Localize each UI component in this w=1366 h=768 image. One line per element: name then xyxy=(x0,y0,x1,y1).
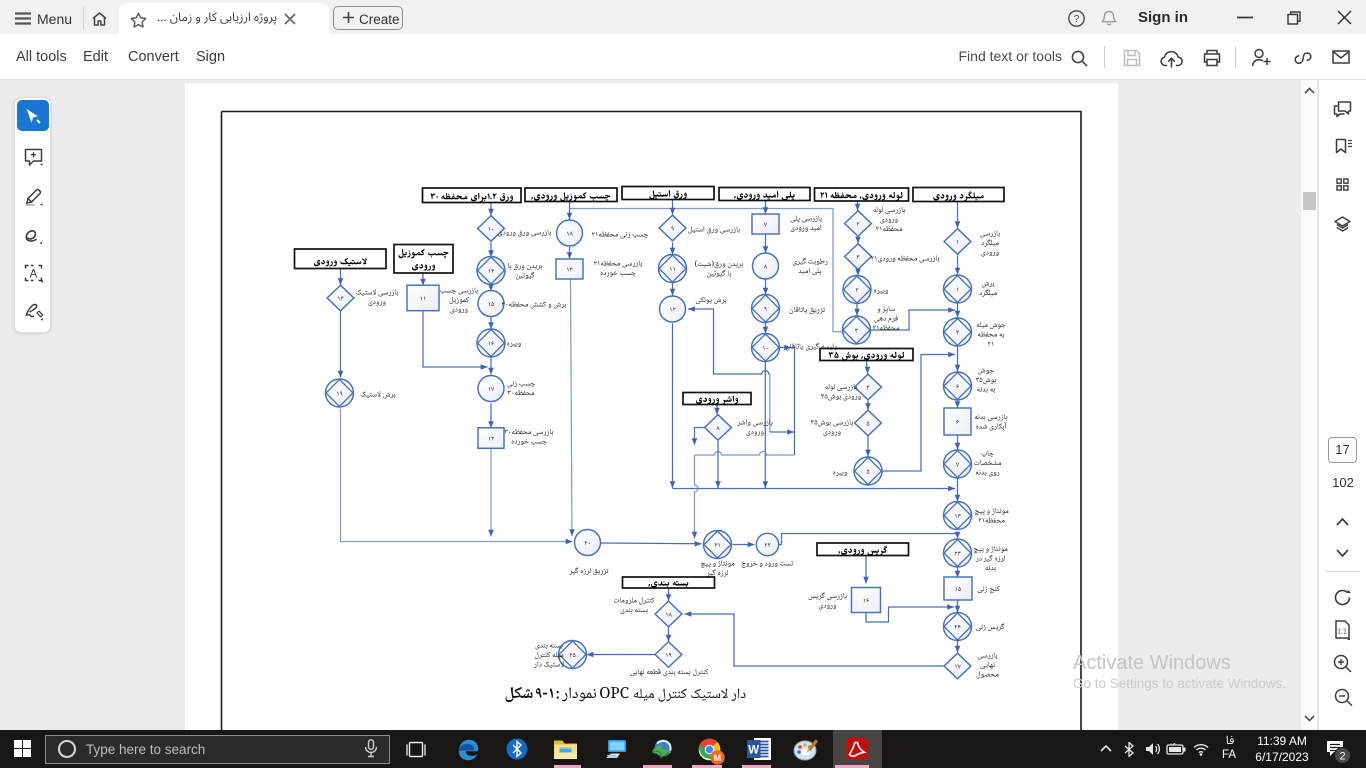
start button xyxy=(14,740,31,757)
combined circle-diamond H4 (۱۶) xyxy=(477,329,505,357)
zoom out icon xyxy=(1334,688,1353,706)
wire wH2 xyxy=(488,284,494,291)
label C1 xyxy=(821,384,861,401)
operation-circle H3 (۱۵) xyxy=(478,291,504,317)
wire wA6 xyxy=(955,479,961,502)
wire wG0 xyxy=(567,200,573,220)
combined circle-diamond H2 (۱۴) xyxy=(477,257,505,285)
wire wL1b xyxy=(866,604,954,622)
wire wD8 xyxy=(770,429,794,435)
label B1 xyxy=(873,207,905,231)
label A8 xyxy=(974,546,1008,572)
wire wI1 xyxy=(423,311,488,370)
wire wJ2 xyxy=(341,409,573,545)
label H5 xyxy=(507,381,535,395)
label A1 xyxy=(980,230,999,256)
inspection-diamond H1 (۱۰) xyxy=(478,216,505,242)
create text xyxy=(359,12,400,27)
label D2 xyxy=(793,258,828,275)
label A3 xyxy=(977,322,1006,346)
wire wE2 xyxy=(692,428,708,446)
material header box L0 xyxy=(817,543,909,556)
label I1 xyxy=(440,287,477,313)
label A4 xyxy=(976,369,996,394)
task view icon xyxy=(406,741,426,758)
wire wD2 xyxy=(763,279,769,295)
inspection-diamond C1 (۴) xyxy=(855,374,882,400)
tray language FA xyxy=(1222,749,1236,761)
material header box B0 xyxy=(815,188,909,201)
wire wD6 xyxy=(780,345,795,455)
select tool (active, blue) xyxy=(17,100,49,131)
wire wC2 xyxy=(865,436,871,457)
tray bluetooth xyxy=(1124,742,1134,757)
label K1 xyxy=(569,567,608,575)
Menu text xyxy=(37,11,72,27)
label G2 xyxy=(594,260,642,276)
wire wJ1 xyxy=(338,312,344,378)
label H6 xyxy=(505,429,553,445)
label B3 xyxy=(874,289,888,294)
wire wA4 xyxy=(955,401,961,409)
label A2 xyxy=(979,282,996,297)
wire wE0 xyxy=(714,405,720,415)
wire wB0 xyxy=(855,201,861,211)
home icon xyxy=(92,12,107,26)
label F3 xyxy=(696,297,727,304)
operation-circle K1 (۲۰) xyxy=(575,530,601,556)
combined circle-diamond A3 (۴) xyxy=(944,318,972,346)
combined circle-diamond D3 (۹) xyxy=(752,295,780,323)
svg-text:M: M xyxy=(714,753,722,763)
label K2 xyxy=(701,560,735,576)
Edit xyxy=(83,49,108,65)
wire wL2 xyxy=(695,452,795,456)
toolbar xyxy=(0,34,1366,80)
mail icon xyxy=(1332,50,1350,64)
wire wL4 xyxy=(692,455,698,539)
zoom in icon xyxy=(1333,654,1352,673)
inspection-diamond A1 (۱) xyxy=(944,229,971,255)
divider xyxy=(1326,571,1360,572)
label M2 xyxy=(630,669,708,676)
activate windows watermark xyxy=(1073,652,1231,675)
label D4 xyxy=(786,343,837,351)
bluetooth taskbar icon xyxy=(506,738,528,760)
file explorer icon xyxy=(553,739,578,760)
page number box xyxy=(1328,437,1357,463)
label B2 xyxy=(871,255,939,262)
sign tool xyxy=(24,302,44,321)
label A9 xyxy=(978,586,1000,593)
comment tool xyxy=(24,148,43,166)
minimize xyxy=(1237,16,1253,19)
inspection-square G2 (۱۳) xyxy=(556,259,583,279)
wire wF1a xyxy=(670,200,676,215)
tray speaker xyxy=(1145,742,1162,756)
tab title (persian) xyxy=(157,8,292,26)
svg-text:A: A xyxy=(30,269,38,281)
notification icon xyxy=(1326,740,1344,757)
inspection-square A9 (۱۵) xyxy=(944,577,972,600)
wire wA2 xyxy=(955,303,961,317)
wire wK1r xyxy=(601,541,702,547)
wire wE1 xyxy=(715,441,721,488)
wire wD4 xyxy=(763,362,769,488)
tray time xyxy=(1252,734,1312,748)
wire wB4 xyxy=(871,307,955,330)
wire wK2r xyxy=(733,542,755,548)
wire wJ0 xyxy=(338,269,344,285)
search icon xyxy=(1071,50,1088,67)
wire wLT xyxy=(570,209,843,332)
inspection-square A5 (۶) xyxy=(944,408,971,435)
acrobat active tile xyxy=(833,730,882,768)
wire wG2 xyxy=(569,279,575,536)
tab star icon xyxy=(130,12,147,29)
wire wA3 xyxy=(955,347,961,372)
label M1 xyxy=(614,597,654,614)
Sign xyxy=(196,49,225,65)
All tools xyxy=(16,49,67,65)
Find text or tools xyxy=(932,48,1062,64)
label E1 xyxy=(737,419,772,436)
wire wC3 xyxy=(882,352,956,471)
label C2 xyxy=(811,419,853,436)
wire wK3r xyxy=(779,532,961,545)
label J1 xyxy=(356,289,398,306)
combined circle-diamond A7 (۱۳) xyxy=(944,502,972,530)
combined circle-diamond K2 (۲۱) xyxy=(704,531,732,559)
material header box J0 xyxy=(295,249,387,269)
label A11 xyxy=(977,652,999,678)
wire wH6 xyxy=(488,449,494,537)
label A6 xyxy=(974,450,1001,476)
tray wifi xyxy=(1192,741,1210,756)
label B4 xyxy=(873,306,899,330)
divider xyxy=(1104,46,1105,68)
combined circle-diamond A4 (۶) xyxy=(944,372,972,400)
material header box D0 xyxy=(719,188,810,202)
wire wD0 xyxy=(763,201,769,215)
tab close x xyxy=(284,13,296,25)
wire wM0 xyxy=(666,588,672,601)
wire wF2b xyxy=(670,283,676,296)
svg-text:W: W xyxy=(748,745,759,757)
rotate icon xyxy=(1334,589,1352,606)
label K3 xyxy=(742,561,794,568)
combined circle-diamond C3 (۵) xyxy=(854,457,882,485)
combined circle-diamond A2 (۱) xyxy=(944,275,972,303)
share/upload cloud icon xyxy=(1160,48,1183,68)
bell icon xyxy=(1101,10,1117,27)
left floating tool panel xyxy=(14,97,51,333)
material header box E0 xyxy=(683,393,751,405)
material header box G0 xyxy=(525,188,617,202)
label H3 xyxy=(502,301,566,308)
label A10 xyxy=(976,623,1004,631)
wire wC1 xyxy=(865,400,871,410)
help icon xyxy=(1068,10,1085,27)
word icon xyxy=(747,738,771,760)
taskbar xyxy=(0,730,1366,768)
inspection-diamond E1 (۸) xyxy=(705,415,732,441)
wire wD1 xyxy=(763,234,769,253)
text select tool xyxy=(24,264,44,283)
wire wH5 xyxy=(488,403,494,428)
wire wA11 xyxy=(685,611,945,666)
operation-circle D2 (۸) xyxy=(753,253,779,279)
close xyxy=(1337,10,1352,25)
running app underlines xyxy=(554,765,581,768)
wire wG1 xyxy=(567,247,573,259)
wire wX2 xyxy=(673,486,956,492)
tray chevron xyxy=(1100,744,1112,752)
tray language fa xyxy=(1221,733,1239,747)
draw tool xyxy=(24,226,43,245)
hamburger menu icon xyxy=(15,12,31,25)
inspection-diamond B1 (۲) xyxy=(845,211,872,237)
label D3 xyxy=(790,307,825,314)
label J2 xyxy=(361,391,395,398)
label A7 xyxy=(975,508,1009,523)
chart frame border xyxy=(222,112,1082,768)
wire wD7 xyxy=(769,374,771,432)
wire wF1b xyxy=(670,242,676,254)
edge icon xyxy=(457,738,480,761)
right rail icons xyxy=(0,0,1366,1)
combined circle-diamond B3 (۲) xyxy=(843,276,871,304)
wire wA0 xyxy=(955,202,961,229)
label C3 xyxy=(833,471,847,476)
chrome idm badge xyxy=(710,750,725,765)
title bar xyxy=(0,0,1366,34)
page down chevron xyxy=(1336,549,1349,558)
svg-text:2: 2 xyxy=(1339,751,1345,763)
material header box H0 xyxy=(423,188,522,203)
inspection-square D1 (۷) xyxy=(752,214,779,234)
inspection-diamond B2 (۳) xyxy=(845,244,872,270)
label F1 xyxy=(688,226,739,233)
operation-circle H5 (۱۷) xyxy=(478,376,504,402)
ai assistant icon xyxy=(1251,48,1272,68)
search placeholder xyxy=(86,742,205,757)
combined circle-diamond J2 (۱۹) xyxy=(326,379,354,407)
this pc icon xyxy=(604,739,627,759)
divider xyxy=(1235,46,1236,68)
inspection-diamond F1 (۹) xyxy=(659,215,686,241)
chrome icon xyxy=(698,738,721,761)
print icon xyxy=(1203,49,1221,67)
combined circle-diamond B4 (۳) xyxy=(843,316,871,344)
white document page xyxy=(185,83,1118,730)
maximize (restore) xyxy=(1287,11,1301,25)
wire wH3 xyxy=(488,317,494,330)
inspection-diamond J1 (۱۴) xyxy=(327,285,354,311)
wire wA8 xyxy=(955,568,961,578)
combined circle-diamond D4 (۱۰) xyxy=(752,334,780,362)
tray battery xyxy=(1166,743,1186,755)
wire wH0 xyxy=(488,203,494,216)
mic icon xyxy=(364,739,378,758)
label G1 xyxy=(592,231,648,238)
inspection-diamond C2 (۵) xyxy=(855,410,882,436)
label F2 xyxy=(695,260,743,277)
svg-text:1:1: 1:1 xyxy=(1337,629,1347,636)
tray date xyxy=(1250,750,1314,764)
inspection-diamond A11 (۱۷) xyxy=(944,653,971,679)
combined circle-diamond F2 (۱۱) xyxy=(659,255,687,283)
comments panel icon xyxy=(1333,101,1352,118)
material header box I0 xyxy=(394,245,453,274)
wire wD3 xyxy=(763,323,769,334)
wire wF3b xyxy=(670,323,676,488)
label A5 xyxy=(975,414,1008,431)
wire wM1 xyxy=(666,627,672,642)
separator xyxy=(83,7,84,29)
bookmarks icon xyxy=(1335,138,1352,154)
inspection-square L1 (۱۶) xyxy=(852,588,881,613)
thumbnails icon xyxy=(1336,178,1349,191)
wire wA1 xyxy=(955,255,961,274)
inspection-square I1 (۱۱) xyxy=(407,285,439,311)
wire wA10 xyxy=(955,641,961,653)
wire wB1 xyxy=(855,237,861,244)
sign in xyxy=(1138,9,1188,26)
wire wL0 xyxy=(863,556,869,584)
inspection-diamond M2 (۱۹) xyxy=(655,642,682,668)
label H2 xyxy=(508,263,542,280)
actual size icon xyxy=(1334,620,1351,640)
active tab xyxy=(119,3,329,34)
divider between scrollbar and right rail xyxy=(1318,80,1319,730)
label H4 xyxy=(507,342,521,347)
combined circle-diamond A6 (۷) xyxy=(944,450,972,478)
label M3 xyxy=(534,644,564,668)
create button xyxy=(333,6,403,30)
inspection-diamond M1 (۱۸) xyxy=(655,601,682,627)
link icon xyxy=(1294,50,1312,66)
label L1 xyxy=(809,592,847,609)
operation-circle F3 (۱۲) xyxy=(660,296,686,322)
wire wH1 xyxy=(488,242,494,257)
label H1 xyxy=(498,229,551,236)
wire wH4 xyxy=(488,358,494,375)
combined circle-diamond A8 (۲۳) xyxy=(944,539,972,567)
highlight tool xyxy=(24,187,43,206)
save icon (disabled) xyxy=(1123,49,1141,67)
chart caption xyxy=(506,687,746,702)
wire wI0 xyxy=(420,273,426,286)
wire wB2 xyxy=(855,269,861,276)
wire wA5 xyxy=(955,435,961,449)
layers icon xyxy=(1334,216,1351,232)
Convert xyxy=(128,49,179,65)
material header box C0 xyxy=(820,349,913,361)
material header box M0 xyxy=(623,577,715,588)
operation-circle K3 (۲۲) xyxy=(756,533,778,555)
page up chevron xyxy=(1336,517,1349,526)
material header box F0 xyxy=(622,187,714,200)
wire wA9 xyxy=(955,600,961,612)
material header box A0 xyxy=(913,188,1004,202)
wire wB3 xyxy=(854,304,860,316)
search box xyxy=(45,735,390,764)
operation-circle G1 (۱۸) xyxy=(557,220,583,246)
paint icon xyxy=(793,738,819,761)
wire wM2 xyxy=(587,652,656,658)
wire wD5 xyxy=(688,306,770,374)
combined circle-diamond M3 (۲۵) xyxy=(559,641,587,669)
combined circle-diamond A10 (۲۴) xyxy=(944,613,972,641)
wire wC0 xyxy=(865,361,871,374)
idm icon xyxy=(649,738,675,761)
inspection-square H6 (۱۲) xyxy=(478,428,504,449)
scrollbar xyxy=(1301,80,1317,730)
total pages xyxy=(1330,475,1356,490)
label D1 xyxy=(791,215,822,232)
